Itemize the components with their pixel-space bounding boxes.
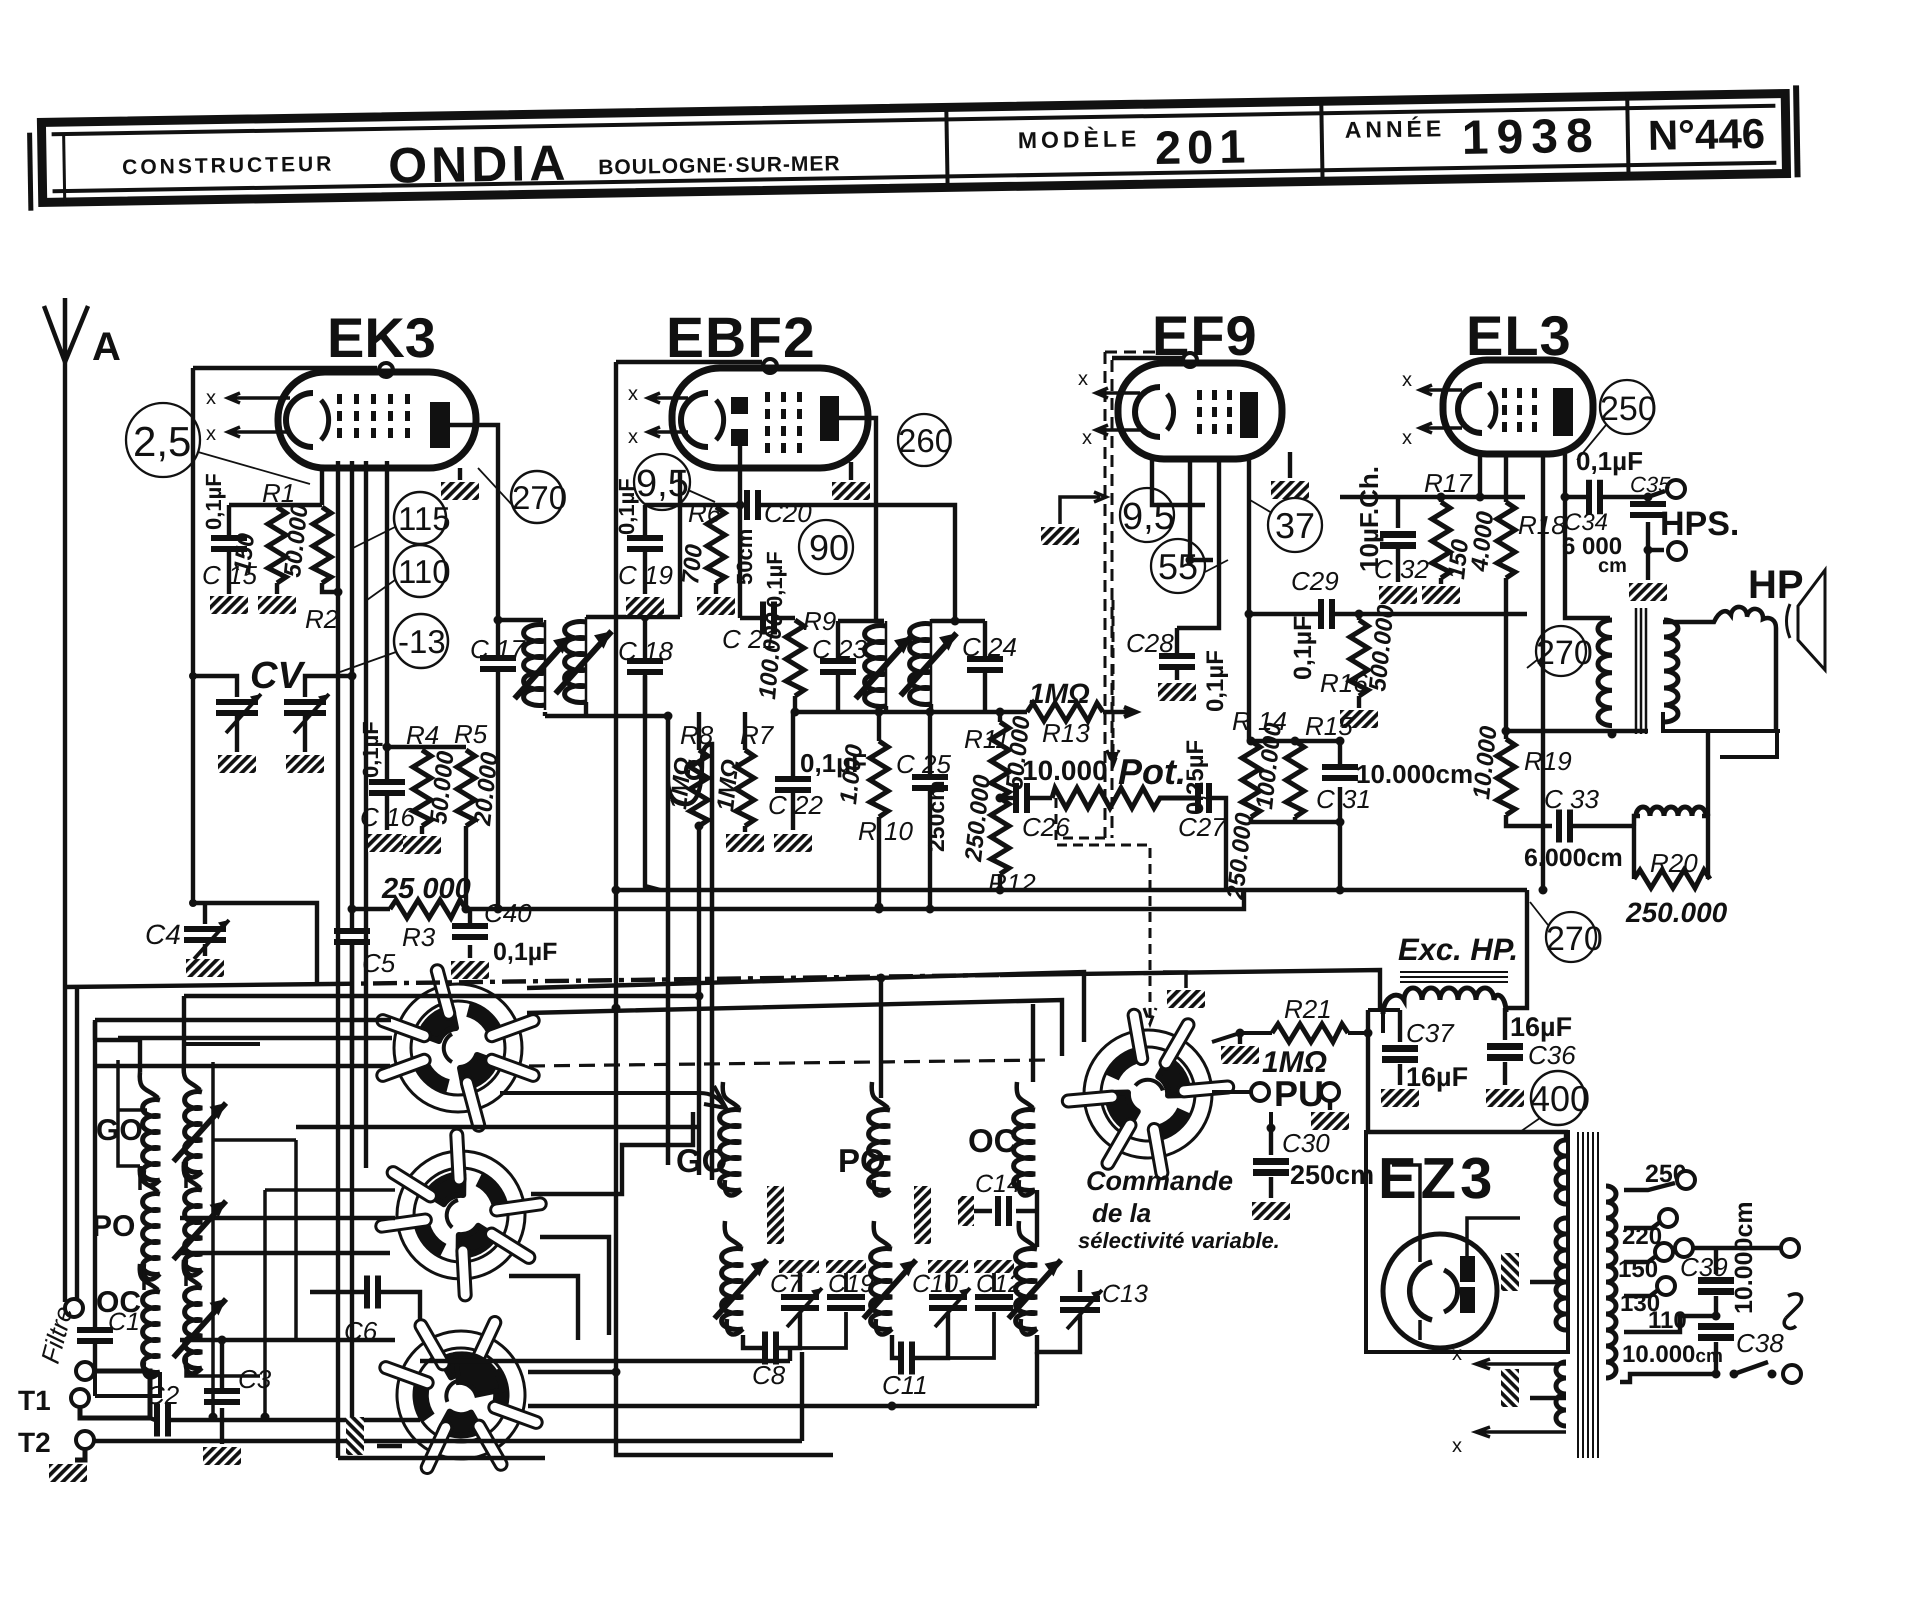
top cap EBF2 bbox=[763, 359, 777, 373]
diode plate EBF2 upper bbox=[731, 397, 748, 414]
circled value 110 bbox=[394, 545, 446, 597]
grids EBF2 bbox=[765, 392, 802, 453]
ground under C15 bbox=[210, 596, 248, 614]
tube EZ3 bulb bbox=[1383, 1234, 1497, 1348]
IF2 primary coil bbox=[865, 621, 886, 710]
wire diode rail bbox=[645, 503, 740, 507]
capacitor C21 bbox=[722, 551, 787, 654]
svg-text:0,25µF: 0,25µF bbox=[1182, 740, 1209, 815]
capacitor C5 bbox=[334, 928, 396, 1060]
svg-text:0,1µF: 0,1µF bbox=[201, 473, 226, 530]
EZ3 cathode arcs bbox=[1410, 1262, 1432, 1320]
svg-text:x: x bbox=[206, 423, 216, 445]
antenna coil OC secondary bbox=[184, 1260, 200, 1286]
wire field coil left bbox=[1368, 1010, 1400, 1033]
svg-text:R16: R16 bbox=[1320, 668, 1368, 698]
variable capacitor CV1 bbox=[193, 676, 261, 752]
wire wafer2 lower right bbox=[540, 1237, 609, 1335]
svg-text:R7: R7 bbox=[740, 720, 775, 750]
antenna coil OC primary bbox=[140, 1264, 158, 1290]
svg-text:9,5: 9,5 bbox=[636, 463, 689, 505]
wire main earth bus bbox=[65, 984, 330, 987]
svg-text:sélectivité variable.: sélectivité variable. bbox=[1078, 1228, 1280, 1253]
svg-text:C8: C8 bbox=[752, 1360, 786, 1390]
svg-text:C38: C38 bbox=[1736, 1328, 1784, 1358]
capacitor C30 bbox=[1253, 1128, 1374, 1198]
svg-text:0,1µF: 0,1µF bbox=[358, 721, 383, 778]
resistor R6 bbox=[707, 507, 725, 583]
transformer winding left middle bbox=[1556, 1218, 1566, 1330]
svg-text:x: x bbox=[1082, 427, 1092, 449]
capacitor C19 bbox=[614, 478, 673, 594]
svg-text:R21: R21 bbox=[1284, 994, 1332, 1024]
svg-text:C29: C29 bbox=[1291, 566, 1339, 596]
svg-text:EK3: EK3 bbox=[327, 306, 436, 369]
capacitor C28 bbox=[1126, 628, 1195, 680]
wire EBF2 grid column bbox=[616, 362, 833, 1455]
svg-text:C11: C11 bbox=[882, 1370, 928, 1400]
svg-text:0,1µF: 0,1µF bbox=[1202, 650, 1229, 712]
heater arrows EF9 bbox=[1096, 388, 1140, 398]
speaker cone bbox=[1787, 570, 1826, 670]
shield dashed line bbox=[1105, 352, 1186, 838]
svg-text:150: 150 bbox=[229, 531, 260, 574]
svg-text:x: x bbox=[206, 387, 216, 409]
core PO bbox=[914, 1186, 931, 1244]
pin wires EK3 bbox=[336, 461, 340, 592]
capacitor C27 bbox=[1195, 783, 1212, 813]
svg-text:C19: C19 bbox=[828, 1270, 874, 1298]
cathode EBF2 bbox=[681, 393, 708, 447]
potentiometer Pot bbox=[1052, 788, 1196, 808]
svg-text:500.000: 500.000 bbox=[1364, 603, 1400, 693]
variable capacitor C4 bbox=[145, 903, 229, 959]
ground under C35 bbox=[1646, 550, 1650, 580]
capacitor C2 bbox=[150, 1418, 155, 1420]
circled value 9,5 bbox=[1120, 488, 1174, 542]
svg-text:C10: C10 bbox=[912, 1270, 958, 1298]
antenna coil PO secondary bbox=[184, 1162, 200, 1188]
svg-text:C30: C30 bbox=[1282, 1128, 1330, 1158]
svg-text:50.000: 50.000 bbox=[425, 749, 460, 825]
wire R18 grid lead bbox=[1541, 455, 1545, 890]
resistor R9 bbox=[786, 620, 804, 696]
svg-text:250cm: 250cm bbox=[923, 780, 949, 852]
wire HT bus bbox=[616, 888, 1527, 892]
svg-text:R3: R3 bbox=[402, 922, 436, 952]
resistor R1 bbox=[268, 507, 286, 583]
field coil Exc HP bbox=[1383, 988, 1506, 1014]
svg-text:110: 110 bbox=[398, 553, 451, 590]
svg-text:Pot.: Pot. bbox=[1118, 751, 1186, 792]
svg-text:x: x bbox=[628, 383, 638, 405]
variable capacitor CV2 bbox=[284, 676, 352, 752]
resistor R14 bbox=[1249, 739, 1340, 743]
wire mesh left column c bbox=[294, 1140, 298, 1340]
svg-text:2,5: 2,5 bbox=[133, 418, 191, 465]
wire IF1 secondary bottom bbox=[545, 702, 668, 716]
svg-text:R 10: R 10 bbox=[858, 816, 913, 846]
svg-text:1.000: 1.000 bbox=[835, 742, 868, 805]
resistor R8 bbox=[697, 712, 701, 750]
output transformer secondary bbox=[1664, 620, 1678, 722]
tap 250 bbox=[1624, 1183, 1675, 1190]
ground left of EF9 bbox=[1060, 492, 1106, 524]
selectivity switch wafer 4 bbox=[1050, 998, 1245, 1191]
resistor R10 bbox=[877, 712, 881, 741]
oscillator coil OC grid bbox=[1017, 1082, 1033, 1108]
svg-text:260: 260 bbox=[898, 422, 953, 459]
wire anode to C17 bbox=[450, 425, 498, 658]
tube EK3 envelope bbox=[278, 372, 476, 468]
svg-text:C 16: C 16 bbox=[360, 802, 415, 832]
wire wafer3 to C8 rail bbox=[95, 1352, 802, 1441]
wire mesh left column a bbox=[211, 1062, 215, 1417]
wire EBF2 grid cap feed bbox=[616, 360, 762, 364]
ground below EF9 bbox=[1288, 452, 1292, 478]
selectivity arrow into pot bbox=[1107, 600, 1119, 766]
wire wafer2 to GO osc coil a bbox=[531, 1112, 693, 1194]
wire IF1 top rail bbox=[498, 618, 543, 622]
tap 130 bbox=[1624, 1290, 1658, 1296]
svg-text:ONDIA: ONDIA bbox=[388, 135, 570, 194]
svg-text:x: x bbox=[628, 426, 638, 448]
wire R14 R15 bottom rail bbox=[1251, 817, 1340, 822]
wire mesh horizontal d bbox=[213, 1140, 395, 1190]
trimmer C10 bbox=[912, 1260, 970, 1327]
svg-text:C5: C5 bbox=[362, 948, 396, 978]
wire GO ant secondary to grid bbox=[184, 996, 699, 1064]
svg-text:R11: R11 bbox=[964, 724, 1010, 754]
svg-text:R6: R6 bbox=[688, 498, 722, 528]
circled value 270 bbox=[511, 471, 563, 523]
banner outer frame bbox=[29, 85, 1797, 210]
svg-text:R4: R4 bbox=[406, 720, 439, 750]
svg-text:T1: T1 bbox=[18, 1385, 51, 1416]
resistor R2 bbox=[313, 507, 331, 583]
terminal T2 bbox=[76, 1431, 94, 1449]
terminal T1 bbox=[71, 1389, 89, 1407]
svg-text:115: 115 bbox=[398, 500, 451, 537]
wire to HPS terminals bbox=[1603, 491, 1665, 497]
capacitor C25 bbox=[896, 712, 951, 907]
wire IF2 bottom rail bbox=[795, 710, 1027, 714]
ground left of wafer3 bbox=[377, 1444, 402, 1448]
oscillator coil OC feedback bbox=[1019, 1221, 1035, 1247]
svg-text:C40: C40 bbox=[484, 898, 532, 928]
svg-text:HPS.: HPS. bbox=[1660, 505, 1739, 543]
mains terminals top bbox=[1675, 1239, 1693, 1257]
svg-text:-13: -13 bbox=[398, 623, 446, 660]
svg-text:201: 201 bbox=[1155, 119, 1252, 174]
oscillator coil GO feedback bbox=[725, 1221, 741, 1247]
terminal HPS bottom bbox=[1668, 542, 1686, 560]
svg-text:C27: C27 bbox=[1178, 812, 1227, 842]
wire wafer3 right a bbox=[528, 1370, 616, 1374]
resistor R15 bbox=[1291, 737, 1300, 746]
terminal filtre mid bbox=[76, 1362, 94, 1380]
tube EL3 envelope bbox=[1443, 360, 1593, 454]
circled value 250 bbox=[1600, 380, 1654, 434]
resistor R19 bbox=[1504, 731, 1508, 739]
resistor 4000 screen bbox=[1504, 455, 1508, 502]
wire coupling loop bbox=[668, 716, 712, 1180]
svg-text:10.000cm: 10.000cm bbox=[1730, 1201, 1758, 1314]
field coil core bbox=[1400, 972, 1508, 982]
svg-text:R8: R8 bbox=[680, 720, 714, 750]
svg-text:0,1µF: 0,1µF bbox=[493, 938, 557, 966]
wire C20 to IF2 secondary bbox=[761, 505, 955, 621]
svg-text:1MΩ: 1MΩ bbox=[665, 756, 697, 811]
svg-text:1MΩ: 1MΩ bbox=[1029, 678, 1090, 709]
ground filament centre tap bbox=[1501, 1369, 1519, 1407]
capacitor C29 bbox=[1289, 566, 1339, 680]
wire wafer1 to wafer4 b bbox=[527, 1000, 1062, 1056]
svg-text:R9: R9 bbox=[803, 606, 836, 636]
terminal antenna filtre top bbox=[65, 1299, 83, 1317]
svg-text:R17: R17 bbox=[1424, 468, 1473, 498]
filament x arrow top bbox=[1476, 1359, 1566, 1369]
svg-text:C4: C4 bbox=[145, 919, 181, 950]
svg-text:CV: CV bbox=[250, 655, 305, 697]
ground PU bbox=[1328, 1101, 1332, 1110]
trimmer C13 bbox=[1037, 1190, 1148, 1352]
svg-text:PO: PO bbox=[92, 1210, 135, 1243]
heater arrows EBF2 bbox=[648, 393, 688, 403]
resistor R7 bbox=[743, 712, 747, 750]
svg-text:37: 37 bbox=[1275, 505, 1315, 546]
capacitor C40 bbox=[452, 898, 557, 966]
capacitor C14 bbox=[958, 1170, 1035, 1226]
svg-text:10.000: 10.000 bbox=[1468, 724, 1503, 800]
svg-text:C13: C13 bbox=[1102, 1280, 1148, 1308]
svg-text:C28: C28 bbox=[1126, 628, 1174, 658]
headphone jack P bbox=[1784, 1294, 1801, 1329]
svg-text:270: 270 bbox=[512, 479, 567, 516]
wire OC osc feed bbox=[1031, 1004, 1035, 1082]
svg-text:ANNÉE: ANNÉE bbox=[1345, 115, 1446, 143]
filament x arrow bottom bbox=[1476, 1427, 1566, 1437]
capacitor C6 bbox=[364, 1276, 381, 1309]
capacitor C32 bbox=[1374, 497, 1429, 584]
wire transformer bottom rail bbox=[1506, 729, 1648, 733]
svg-text:de la: de la bbox=[1092, 1198, 1151, 1228]
output transformer core bbox=[1636, 608, 1646, 734]
svg-text:50cm: 50cm bbox=[732, 529, 757, 585]
ground below EBF2 bbox=[849, 462, 853, 480]
IF transformer secondary coil bbox=[565, 617, 586, 707]
diode plate EBF2 lower bbox=[731, 429, 748, 446]
svg-text:T2: T2 bbox=[18, 1427, 51, 1458]
wire speaker return bbox=[1663, 712, 1780, 757]
capacitor C24 bbox=[962, 621, 1017, 712]
capacitor C36 bbox=[1487, 1008, 1576, 1085]
svg-text:C 17: C 17 bbox=[470, 634, 526, 664]
svg-text:Filtre: Filtre bbox=[35, 1303, 79, 1367]
svg-text:R15: R15 bbox=[1305, 711, 1353, 741]
wire left grid box bbox=[191, 368, 195, 903]
ground under T2 bbox=[49, 1464, 87, 1482]
svg-text:x: x bbox=[1452, 1343, 1462, 1365]
switch wafer 3 bbox=[343, 1277, 579, 1513]
svg-text:9,5: 9,5 bbox=[1122, 496, 1175, 538]
wire cathode rail bbox=[229, 470, 322, 505]
switch wafer 1 bbox=[375, 963, 541, 1132]
svg-text:EZ3: EZ3 bbox=[1378, 1146, 1496, 1211]
circled value 55 bbox=[1151, 539, 1205, 593]
resistor R20 bbox=[1632, 826, 1636, 879]
circled value 270 bus bbox=[1546, 912, 1596, 962]
wire into wafer1 mid bbox=[118, 1036, 392, 1040]
svg-text:C35: C35 bbox=[1630, 472, 1671, 497]
wire coil bottoms to filtre bbox=[95, 1371, 160, 1396]
svg-text:270: 270 bbox=[1536, 634, 1593, 672]
output transformer primary bbox=[1598, 620, 1612, 726]
circled value 9,5 bbox=[634, 454, 690, 510]
wire mesh to GO osc coil b bbox=[296, 1125, 698, 1129]
wire EF9 anode pin bbox=[1249, 459, 1318, 741]
tap 150a bbox=[1624, 1256, 1656, 1262]
wire wafer3 right b bbox=[528, 1352, 1037, 1406]
wire diode pin down bbox=[738, 446, 742, 618]
svg-text:x: x bbox=[1452, 1435, 1462, 1457]
heater arrows EK3 bbox=[228, 393, 290, 403]
capacitor C35 bbox=[1630, 472, 1671, 550]
svg-text:C34: C34 bbox=[1564, 509, 1608, 536]
svg-text:BOULOGNE·SUR-MER: BOULOGNE·SUR-MER bbox=[598, 152, 841, 179]
wire humbuck to speaker frame bbox=[1706, 731, 1710, 816]
svg-text:OC: OC bbox=[96, 1286, 141, 1319]
wire AVC bus bbox=[466, 890, 1244, 909]
tap 110 bbox=[1624, 1316, 1716, 1332]
tap 220 bbox=[1624, 1222, 1660, 1228]
svg-text:CONSTRUCTEUR: CONSTRUCTEUR bbox=[122, 153, 335, 180]
capacitor C23 bbox=[812, 621, 867, 712]
capacitor C3 bbox=[204, 1340, 272, 1444]
svg-text:150: 150 bbox=[1618, 1256, 1658, 1283]
svg-text:C39: C39 bbox=[1680, 1252, 1728, 1282]
EZ3 plate 1 bbox=[1460, 1256, 1475, 1282]
svg-text:C 23: C 23 bbox=[812, 634, 867, 664]
wire filtre links bbox=[80, 1371, 150, 1418]
oscillator coil PO feedback bbox=[874, 1221, 890, 1247]
svg-text:C14: C14 bbox=[975, 1170, 1021, 1198]
svg-text:0,1µF: 0,1µF bbox=[1289, 616, 1317, 680]
wire EBF2 anode down bbox=[839, 418, 884, 621]
capacitor C39 bbox=[1680, 1248, 1734, 1316]
wire grid-cap feed bbox=[193, 366, 377, 370]
svg-text:1MΩ: 1MΩ bbox=[712, 758, 744, 813]
svg-text:R20: R20 bbox=[1650, 848, 1698, 878]
circled value 37 bbox=[1268, 498, 1322, 552]
capacitor C26 bbox=[1000, 796, 1013, 800]
svg-text:700: 700 bbox=[677, 542, 708, 585]
resistor R12 bbox=[991, 798, 1009, 874]
wire osc common rail bbox=[420, 1350, 790, 1361]
svg-text:Exc. HP.: Exc. HP. bbox=[1398, 932, 1518, 967]
svg-text:C 24: C 24 bbox=[962, 632, 1017, 662]
resistor R5 bbox=[457, 750, 475, 826]
svg-text:R12: R12 bbox=[988, 868, 1036, 898]
anode EK3 bbox=[430, 402, 450, 448]
wire OC ant to wafer3 bbox=[180, 1338, 395, 1342]
svg-text:10.000: 10.000 bbox=[1022, 755, 1108, 786]
top cap EF9 bbox=[1183, 353, 1197, 367]
wire EBF2 grid lead bbox=[678, 470, 682, 617]
wire antenna down-lead bbox=[63, 360, 67, 1302]
wire EF9 g3 pin bbox=[1177, 459, 1219, 628]
svg-text:Commande: Commande bbox=[1086, 1166, 1233, 1196]
svg-text:110: 110 bbox=[1648, 1307, 1687, 1334]
speaker voice coil bbox=[1663, 607, 1776, 729]
wire field coil right to bus bbox=[1504, 890, 1527, 1008]
tube EF9 envelope bbox=[1118, 363, 1282, 459]
trimmer C7 bbox=[770, 1260, 822, 1327]
svg-text:10.000cm: 10.000cm bbox=[1622, 1341, 1723, 1368]
svg-text:10.000cm: 10.000cm bbox=[1356, 759, 1473, 789]
svg-text:R18: R18 bbox=[1518, 510, 1566, 540]
svg-text:C 25: C 25 bbox=[896, 749, 951, 779]
wire EL3 cathode rail bbox=[1340, 455, 1525, 497]
resistor R11 bbox=[996, 708, 1005, 717]
capacitor C15 bbox=[201, 473, 257, 594]
wire R4 R5 rail bbox=[387, 745, 466, 749]
switch wafer 2 bbox=[362, 1115, 559, 1315]
circled value 90 bbox=[799, 520, 853, 574]
capacitor C8 bbox=[743, 1335, 762, 1348]
core GO bbox=[767, 1186, 784, 1244]
svg-text:C36: C36 bbox=[1528, 1040, 1576, 1070]
circled value 115 bbox=[394, 492, 446, 544]
svg-text:R19: R19 bbox=[1524, 746, 1572, 776]
svg-text:x: x bbox=[1402, 369, 1412, 391]
antenna A bbox=[44, 298, 88, 362]
svg-text:C 32: C 32 bbox=[1374, 554, 1429, 584]
wire wafer1 to wafer4 a bbox=[527, 972, 1084, 1042]
svg-text:OC: OC bbox=[968, 1122, 1018, 1159]
svg-text:250.000: 250.000 bbox=[960, 773, 996, 864]
wire EK3 osc pin extensions bbox=[338, 592, 545, 1458]
wire coil to wafer1 low bbox=[95, 1020, 390, 1308]
capacitor C37 bbox=[1382, 1010, 1468, 1092]
heater arrows EL3 bbox=[1420, 385, 1462, 395]
transformer filament winding left lower bbox=[1556, 1362, 1566, 1426]
ground HT centre tap bbox=[1501, 1253, 1519, 1291]
oscillator coil GO grid bbox=[723, 1082, 739, 1108]
svg-text:250cm: 250cm bbox=[1290, 1160, 1374, 1190]
EZ3 plate 2 bbox=[1460, 1287, 1475, 1313]
svg-text:C37: C37 bbox=[1406, 1018, 1455, 1048]
svg-text:C20: C20 bbox=[764, 498, 812, 528]
transformer primary tapped winding right bbox=[1606, 1186, 1616, 1378]
mains switch bbox=[1730, 1370, 1739, 1379]
transformer core bbox=[1578, 1132, 1598, 1458]
wire PO osc feed bbox=[879, 978, 883, 1098]
capacitor C11 bbox=[892, 1335, 898, 1358]
wire filtre to wafer1 bbox=[95, 1018, 391, 1022]
capacitor C33 bbox=[1506, 815, 1552, 826]
wire wafer1 to GO osc bbox=[500, 1086, 726, 1108]
capacitor C17 bbox=[480, 655, 516, 672]
wire left feed rails bbox=[77, 985, 140, 1300]
svg-text:R13: R13 bbox=[1042, 718, 1090, 748]
trimmer C19b bbox=[779, 1260, 874, 1348]
svg-text:MODÈLE: MODÈLE bbox=[1018, 125, 1141, 153]
svg-text:90: 90 bbox=[809, 527, 849, 568]
grids EL3 bbox=[1502, 388, 1537, 432]
wire wafer1 aux dashed bbox=[529, 1060, 1050, 1066]
svg-text:N°446: N°446 bbox=[1647, 110, 1765, 159]
